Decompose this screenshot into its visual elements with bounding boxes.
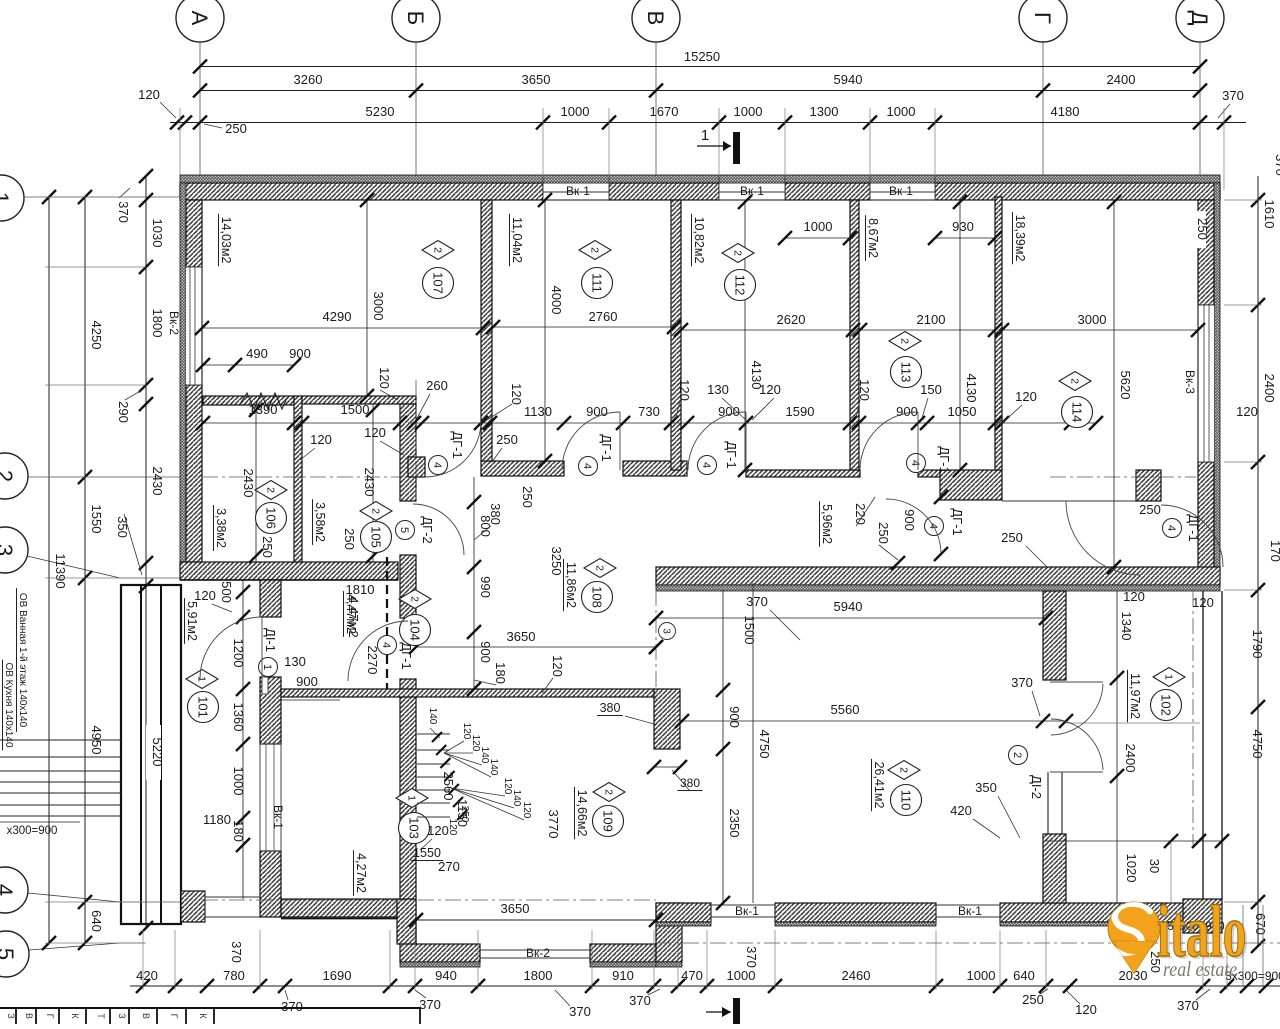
svg-text:1000: 1000: [887, 104, 916, 119]
svg-text:1: 1: [0, 192, 13, 204]
svg-text:380: 380: [488, 503, 503, 525]
svg-text:11,04м2: 11,04м2: [510, 217, 524, 263]
svg-text:2430: 2430: [241, 469, 256, 498]
svg-text:370: 370: [1177, 998, 1199, 1013]
svg-text:5220: 5220: [150, 738, 165, 767]
svg-text:220: 220: [853, 503, 868, 525]
svg-text:120: 120: [427, 823, 449, 838]
svg-text:2: 2: [431, 247, 443, 253]
svg-text:ДГ-1: ДГ-1: [399, 642, 414, 669]
svg-text:ОВ Кухня 140х140: ОВ Кухня 140х140: [3, 662, 14, 748]
svg-text:4: 4: [909, 460, 921, 466]
svg-text:2: 2: [369, 508, 381, 514]
svg-text:2: 2: [1068, 378, 1080, 384]
svg-text:370: 370: [281, 999, 303, 1014]
svg-text:370: 370: [1222, 88, 1244, 103]
svg-text:Вк-1: Вк-1: [740, 184, 764, 198]
svg-text:105: 105: [368, 526, 383, 548]
svg-text:3650: 3650: [507, 629, 536, 644]
svg-text:120: 120: [550, 655, 565, 677]
svg-text:290: 290: [116, 401, 131, 423]
svg-text:1000: 1000: [734, 104, 763, 119]
svg-text:990: 990: [478, 576, 493, 598]
svg-text:2: 2: [1011, 752, 1023, 758]
svg-text:1130: 1130: [524, 404, 552, 419]
svg-text:В: В: [141, 1013, 151, 1019]
svg-text:370: 370: [1011, 675, 1033, 690]
svg-text:420: 420: [136, 968, 158, 983]
svg-text:11390: 11390: [53, 553, 68, 588]
svg-text:11,86м2: 11,86м2: [564, 562, 578, 608]
svg-text:4: 4: [581, 463, 593, 469]
svg-text:250: 250: [520, 486, 535, 508]
svg-text:3000: 3000: [371, 292, 386, 321]
svg-text:1360: 1360: [231, 703, 246, 732]
svg-text:2: 2: [0, 470, 17, 482]
svg-text:900: 900: [727, 706, 742, 728]
svg-text:250: 250: [260, 536, 275, 558]
svg-text:ДГ-1: ДГ-1: [937, 446, 952, 473]
svg-text:107: 107: [430, 272, 445, 294]
svg-text:26,41м2: 26,41м2: [872, 762, 886, 809]
svg-text:101: 101: [195, 696, 210, 718]
svg-text:250: 250: [1139, 502, 1161, 517]
svg-text:4: 4: [380, 642, 392, 648]
svg-text:900: 900: [478, 641, 493, 663]
svg-text:1300: 1300: [810, 104, 839, 119]
svg-text:910: 910: [612, 968, 634, 983]
svg-text:1550: 1550: [89, 505, 104, 534]
svg-text:2270: 2270: [365, 646, 380, 675]
svg-text:1: 1: [195, 676, 207, 682]
svg-text:250: 250: [876, 522, 891, 544]
svg-text:4: 4: [0, 884, 17, 896]
svg-text:900: 900: [289, 346, 311, 361]
svg-text:Вк-1: Вк-1: [566, 184, 590, 198]
svg-text:3650: 3650: [501, 901, 530, 916]
svg-text:900: 900: [896, 404, 918, 419]
svg-text:30: 30: [1147, 859, 1162, 873]
svg-text:4,27м2: 4,27м2: [354, 853, 368, 893]
svg-text:Вк-3: Вк-3: [1183, 370, 1197, 394]
svg-text:ОВ Ванная 1-й этаж 140х140: ОВ Ванная 1-й этаж 140х140: [17, 593, 28, 728]
svg-text:109: 109: [600, 810, 615, 832]
svg-text:260: 260: [426, 378, 448, 393]
svg-text:5: 5: [398, 527, 410, 533]
svg-text:1: 1: [701, 127, 709, 144]
svg-text:К: К: [70, 1013, 80, 1019]
svg-text:250: 250: [459, 806, 470, 823]
svg-text:120: 120: [1192, 595, 1214, 610]
svg-text:130: 130: [707, 382, 729, 397]
svg-text:106: 106: [263, 507, 278, 529]
svg-text:З: З: [117, 1013, 127, 1018]
svg-text:120: 120: [447, 819, 458, 836]
svg-text:250: 250: [1022, 992, 1044, 1007]
svg-text:4000: 4000: [549, 286, 564, 315]
svg-text:900: 900: [902, 509, 917, 531]
svg-text:940: 940: [435, 968, 457, 983]
svg-text:4: 4: [431, 462, 443, 468]
svg-text:З: З: [6, 1013, 16, 1018]
svg-text:500: 500: [219, 581, 234, 603]
svg-text:111: 111: [589, 273, 604, 293]
svg-text:140: 140: [427, 708, 438, 725]
svg-text:120: 120: [759, 382, 781, 397]
svg-text:1: 1: [1162, 674, 1174, 680]
svg-text:1390: 1390: [249, 402, 278, 417]
svg-text:2460: 2460: [842, 968, 871, 983]
svg-text:1000: 1000: [231, 767, 246, 796]
svg-text:110: 110: [898, 790, 913, 811]
svg-text:370: 370: [629, 993, 651, 1008]
svg-text:Вк-1: Вк-1: [271, 805, 285, 829]
svg-text:Вк-1: Вк-1: [735, 904, 759, 918]
svg-text:3: 3: [0, 544, 17, 556]
svg-text:4180: 4180: [1051, 104, 1080, 119]
svg-text:1800: 1800: [524, 968, 553, 983]
svg-text:1180: 1180: [203, 812, 231, 827]
svg-text:14,03м2: 14,03м2: [219, 217, 233, 264]
svg-text:4: 4: [1165, 525, 1177, 531]
svg-text:470: 470: [681, 968, 703, 983]
svg-text:15250: 15250: [684, 49, 720, 64]
svg-text:5: 5: [0, 948, 18, 960]
svg-text:1000: 1000: [727, 968, 756, 983]
svg-text:120: 120: [138, 87, 160, 102]
svg-text:1550: 1550: [413, 846, 441, 860]
svg-text:640: 640: [89, 910, 104, 932]
svg-text:370: 370: [116, 201, 131, 223]
svg-text:250: 250: [1001, 530, 1023, 545]
svg-text:2760: 2760: [589, 309, 618, 324]
svg-text:120: 120: [310, 432, 332, 447]
svg-text:Г: Г: [1030, 12, 1055, 24]
svg-text:Вк-2: Вк-2: [526, 946, 550, 960]
svg-text:2: 2: [897, 767, 909, 773]
svg-text:490: 490: [246, 346, 268, 361]
svg-text:1690: 1690: [323, 968, 352, 983]
svg-text:930: 930: [952, 219, 974, 234]
svg-text:1020: 1020: [1124, 854, 1139, 883]
svg-text:250: 250: [1195, 218, 1210, 240]
svg-text:В: В: [24, 1013, 34, 1019]
svg-text:1030: 1030: [150, 219, 165, 248]
svg-text:Г: Г: [45, 1014, 55, 1019]
svg-text:1610: 1610: [1262, 200, 1277, 229]
svg-text:ДГ-1: ДГ-1: [724, 441, 739, 468]
svg-text:1200: 1200: [231, 639, 246, 668]
svg-text:2: 2: [264, 487, 276, 493]
svg-text:780: 780: [223, 968, 245, 983]
svg-text:1: 1: [405, 795, 417, 801]
svg-text:250: 250: [225, 121, 247, 136]
svg-text:130: 130: [284, 654, 306, 669]
svg-text:ДІ-2: ДІ-2: [1029, 775, 1044, 799]
svg-text:670: 670: [1253, 913, 1268, 935]
svg-text:5,96м2: 5,96м2: [820, 504, 834, 544]
svg-text:1000: 1000: [804, 219, 833, 234]
svg-text:104: 104: [407, 619, 422, 641]
svg-text:real estate: real estate: [1163, 959, 1237, 982]
svg-text:250: 250: [496, 432, 518, 447]
svg-text:х300=900: х300=900: [7, 825, 58, 837]
svg-text:370: 370: [569, 1004, 591, 1019]
svg-text:350: 350: [975, 780, 997, 795]
svg-text:5230: 5230: [366, 104, 395, 119]
svg-text:5940: 5940: [834, 72, 863, 87]
svg-text:640: 640: [1013, 968, 1035, 983]
svg-text:11,97м2: 11,97м2: [1128, 673, 1142, 719]
svg-text:3250: 3250: [549, 547, 564, 576]
svg-text:3: 3: [661, 628, 672, 634]
svg-text:14,66м2: 14,66м2: [575, 790, 589, 837]
svg-text:Д: Д: [1187, 11, 1212, 26]
svg-text:2: 2: [731, 250, 743, 256]
svg-text:Б: Б: [403, 11, 428, 25]
svg-text:3650: 3650: [522, 72, 551, 87]
svg-text:3,58м2: 3,58м2: [313, 502, 327, 542]
svg-text:2: 2: [593, 565, 605, 571]
svg-text:4750: 4750: [1250, 730, 1265, 759]
svg-text:Вк-1: Вк-1: [958, 904, 982, 918]
svg-text:180: 180: [493, 662, 508, 684]
svg-text:112: 112: [732, 275, 747, 296]
svg-text:2: 2: [408, 596, 420, 602]
svg-text:113: 113: [898, 362, 913, 383]
svg-text:140: 140: [511, 790, 522, 807]
svg-text:ДГ-1: ДГ-1: [1186, 514, 1201, 541]
svg-text:140: 140: [488, 759, 499, 776]
svg-text:120: 120: [677, 379, 692, 401]
svg-text:4250: 4250: [89, 321, 104, 350]
svg-text:120: 120: [364, 425, 386, 440]
svg-text:4750: 4750: [757, 730, 772, 759]
svg-text:370: 370: [744, 946, 759, 968]
svg-text:Вк-2: Вк-2: [167, 311, 181, 335]
svg-text:1500: 1500: [341, 402, 370, 417]
svg-text:270: 270: [438, 859, 460, 874]
svg-text:1340: 1340: [1119, 612, 1134, 641]
svg-text:2430: 2430: [362, 468, 377, 497]
svg-text:120: 120: [857, 379, 872, 401]
svg-text:18,39м2: 18,39м2: [1013, 215, 1027, 262]
svg-text:К: К: [198, 1013, 208, 1019]
svg-text:4,47м2: 4,47м2: [344, 594, 358, 634]
svg-text:103: 103: [406, 817, 421, 839]
svg-text:108: 108: [589, 586, 604, 608]
svg-text:Т: Т: [96, 1013, 106, 1019]
svg-text:370: 370: [419, 997, 441, 1012]
svg-text:120: 120: [1075, 1002, 1097, 1017]
svg-text:1590: 1590: [786, 404, 815, 419]
svg-text:3000: 3000: [1078, 312, 1107, 327]
svg-text:120: 120: [1123, 589, 1145, 604]
svg-text:3260: 3260: [294, 72, 323, 87]
svg-text:В: В: [643, 11, 668, 26]
svg-text:1500: 1500: [742, 616, 757, 645]
svg-text:120: 120: [509, 383, 524, 405]
svg-text:120: 120: [377, 367, 392, 389]
svg-text:ДГ-1: ДГ-1: [450, 431, 465, 458]
svg-text:ДІ-1: ДІ-1: [263, 628, 278, 652]
svg-text:2400: 2400: [1262, 374, 1277, 403]
svg-text:3770: 3770: [546, 810, 561, 839]
svg-text:2400: 2400: [1123, 744, 1138, 773]
svg-text:Г: Г: [169, 1014, 179, 1019]
svg-text:1050: 1050: [948, 404, 977, 419]
svg-text:1670: 1670: [650, 104, 679, 119]
svg-text:250: 250: [342, 528, 357, 550]
svg-text:1000: 1000: [967, 968, 996, 983]
svg-text:3,38м2: 3,38м2: [214, 508, 228, 548]
svg-text:1000: 1000: [561, 104, 590, 119]
svg-text:5,91м2: 5,91м2: [185, 601, 199, 641]
svg-text:2: 2: [898, 338, 910, 344]
svg-text:150: 150: [920, 382, 942, 397]
svg-text:ДГ-1: ДГ-1: [950, 508, 965, 535]
svg-text:4290: 4290: [323, 309, 352, 324]
svg-text:114: 114: [1069, 402, 1084, 423]
svg-text:900: 900: [296, 674, 318, 689]
svg-text:120: 120: [1015, 389, 1037, 404]
svg-text:120: 120: [1236, 404, 1258, 419]
svg-text:8,67м2: 8,67м2: [866, 218, 880, 258]
svg-text:5560: 5560: [831, 702, 860, 717]
svg-text:370: 370: [1273, 154, 1280, 176]
svg-text:5940: 5940: [834, 599, 863, 614]
svg-text:Вк-1: Вк-1: [889, 184, 913, 198]
svg-text:2350: 2350: [727, 809, 742, 838]
svg-text:370: 370: [229, 941, 244, 963]
svg-text:2620: 2620: [777, 312, 806, 327]
svg-text:5620: 5620: [1118, 371, 1133, 400]
svg-text:1790: 1790: [1250, 630, 1265, 659]
svg-text:ДГ-2: ДГ-2: [420, 516, 435, 543]
svg-text:1: 1: [261, 664, 273, 670]
svg-text:1800: 1800: [150, 309, 165, 338]
svg-text:170: 170: [1268, 540, 1280, 562]
svg-text:4: 4: [700, 462, 712, 468]
svg-text:2: 2: [602, 789, 614, 795]
svg-text:2400: 2400: [1107, 72, 1136, 87]
svg-text:А: А: [187, 11, 212, 26]
svg-text:2100: 2100: [917, 312, 946, 327]
svg-text:730: 730: [638, 404, 660, 419]
svg-text:10,82м2: 10,82м2: [692, 217, 706, 264]
svg-text:370: 370: [746, 594, 768, 609]
svg-text:2: 2: [588, 247, 600, 253]
svg-text:102: 102: [1158, 694, 1173, 716]
svg-text:2430: 2430: [150, 467, 165, 496]
svg-text:ДГ-1: ДГ-1: [599, 434, 614, 461]
svg-text:420: 420: [950, 803, 972, 818]
svg-text:120: 120: [521, 802, 532, 819]
svg-text:380: 380: [600, 701, 621, 715]
svg-text:4130: 4130: [964, 374, 979, 403]
